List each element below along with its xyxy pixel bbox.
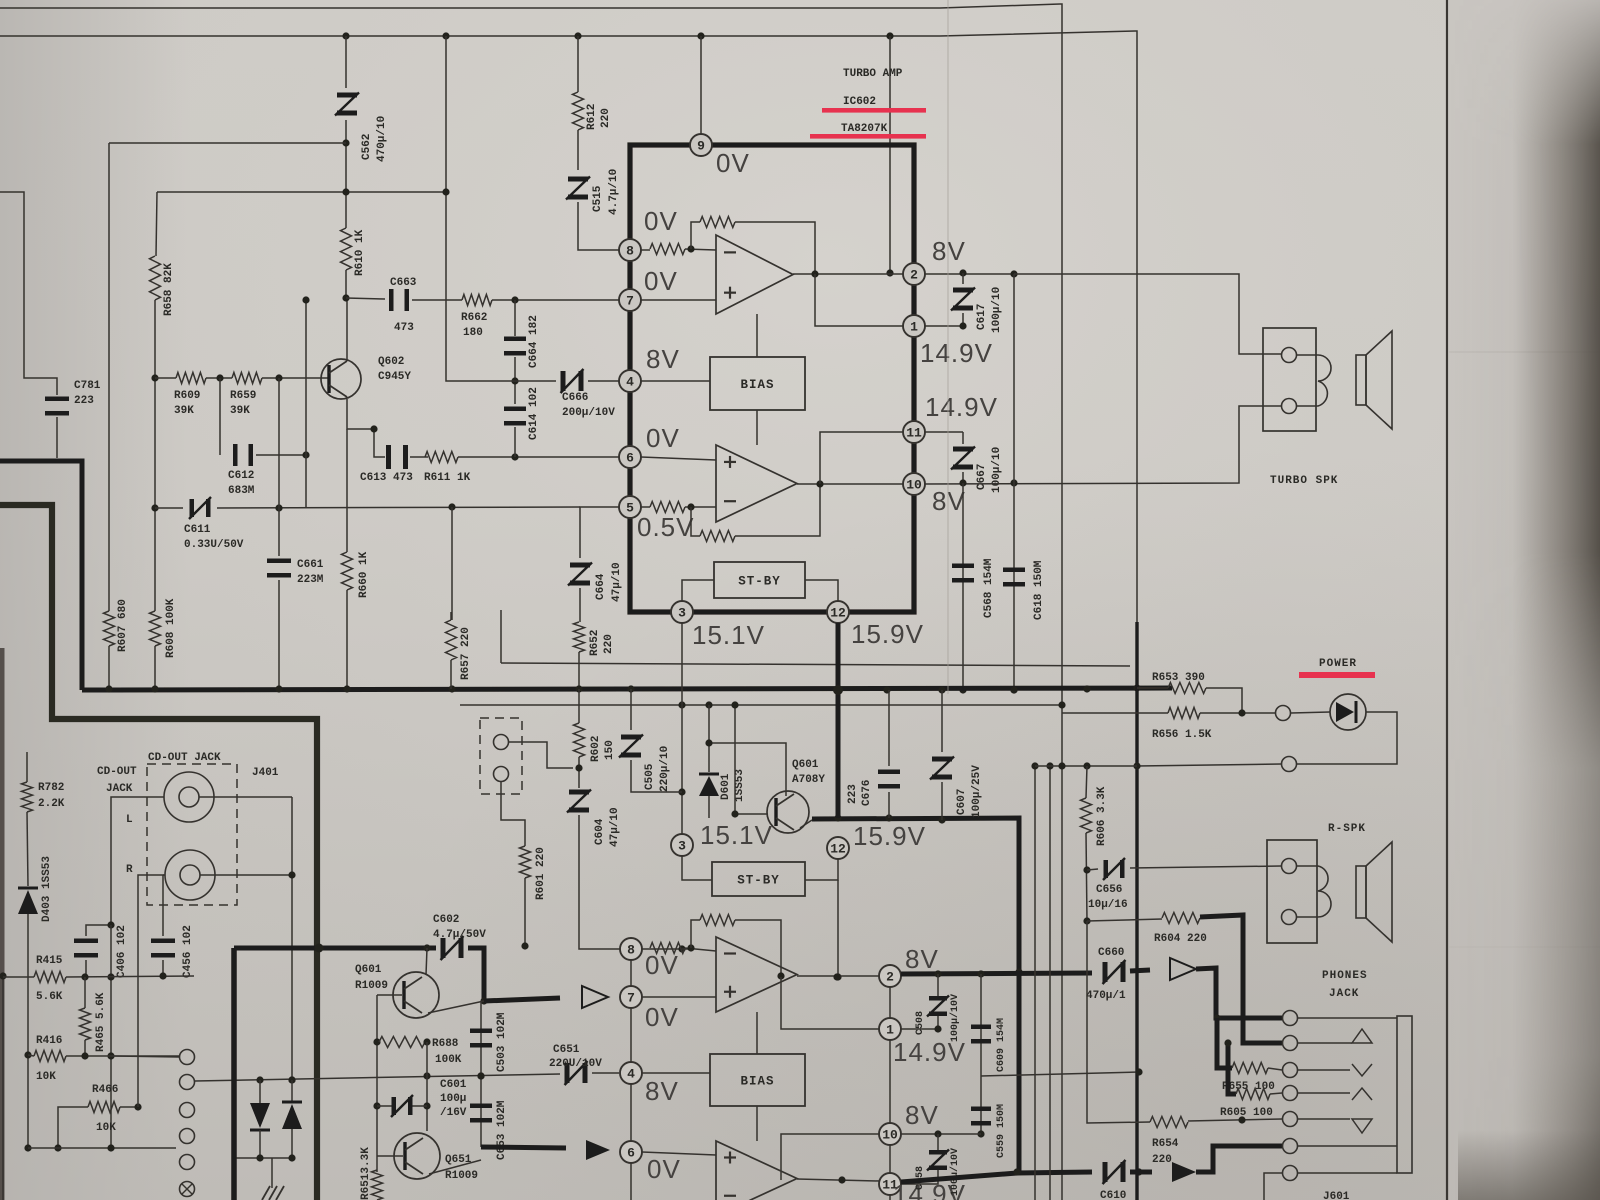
connector RCA L: [164, 772, 214, 822]
svg-text:C663: C663: [390, 277, 417, 289]
wire R466 right: [120, 1103, 142, 1110]
op-amp L-BIAS box: [710, 1054, 805, 1106]
wire x446 vertical: [442, 36, 515, 381]
page border line: [1446, 0, 1448, 1200]
svg-text:C505: C505: [644, 763, 656, 790]
wire C676 branch: [888, 690, 890, 766]
wire bias top: [756, 314, 758, 357]
wire feedback3 out: [735, 920, 781, 976]
svg-text:C676: C676: [861, 780, 873, 806]
wire stbyL left: [682, 856, 712, 880]
wire y378 base row: [155, 377, 176, 379]
ground: [262, 1158, 284, 1200]
svg-text:8V: 8V: [932, 236, 966, 266]
svg-text:R657 220: R657 220: [460, 627, 472, 680]
wire thick C660 to phones: [1130, 970, 1150, 971]
wire x155 drop: [156, 192, 157, 256]
label JACK: [1329, 988, 1359, 1000]
svg-text:Q602: Q602: [378, 356, 404, 368]
svg-text:C503 102M: C503 102M: [496, 1012, 508, 1072]
svg-text:C508: C508: [915, 1011, 926, 1035]
connector jack body bar: [1397, 1016, 1412, 1173]
svg-text:R658 82K: R658 82K: [163, 263, 175, 316]
resistor R466: [88, 1102, 120, 1113]
value 8V pin10 lower: [905, 1100, 939, 1130]
wire left drop x109: [108, 143, 110, 611]
connector J-option dashed box: [480, 718, 522, 794]
svg-text:0V: 0V: [645, 1002, 679, 1032]
label Q601 R1009: [355, 964, 388, 992]
label R609 39K: [174, 390, 200, 417]
label C612 683M: [228, 470, 255, 497]
wire pin7 to plus: [641, 299, 716, 301]
wire C663-R662: [412, 299, 462, 301]
resistor R606: [1081, 798, 1092, 833]
wire pin11 feedback tap: [820, 432, 903, 484]
label C406 102: [116, 925, 128, 978]
svg-text:JACK: JACK: [1329, 988, 1359, 1000]
svg-text:R654: R654: [1152, 1138, 1179, 1150]
resistor R653: [1168, 683, 1206, 694]
svg-text:R601 220: R601 220: [535, 847, 547, 900]
connector PHONES JACK: [1283, 1011, 1298, 1181]
svg-text:R1009: R1009: [355, 980, 388, 992]
svg-text:R466: R466: [92, 1084, 118, 1096]
resistor internal fb3a: [650, 943, 685, 954]
arrow phones L: [1170, 958, 1196, 980]
svg-text:D403 1SS53: D403 1SS53: [41, 856, 53, 922]
terminal opt1: [494, 735, 509, 750]
wire C508 to pin1L: [901, 1016, 942, 1033]
svg-text:TURBO SPK: TURBO SPK: [1270, 475, 1338, 487]
label R-SPK: [1328, 823, 1366, 835]
wire R662 to pin7: [492, 296, 619, 303]
wire pin1 feedback tap: [815, 274, 903, 326]
op-amp A3: [716, 937, 797, 1012]
terminal rspk1: [1282, 859, 1297, 874]
wire thick C610 to arrow: [1130, 1170, 1152, 1175]
resistor R604: [1162, 913, 1200, 924]
pin 10 lower: [879, 1123, 901, 1145]
svg-text:Q601: Q601: [792, 759, 819, 771]
svg-text:11: 11: [906, 426, 922, 441]
capacitor C663: [389, 289, 409, 311]
wire x377: [373, 995, 380, 1172]
capacitor C653: [470, 1104, 492, 1123]
svg-text:J601: J601: [1323, 1191, 1350, 1200]
wire R654 chain: [1087, 921, 1150, 1123]
label R415 5.6K: [36, 955, 63, 1003]
contact triangle up: [1298, 1029, 1372, 1043]
wire x111 down: [107, 925, 114, 1148]
resistor R662: [462, 295, 492, 306]
svg-text:C607: C607: [956, 789, 968, 815]
contact chevron up: [1298, 1088, 1372, 1100]
wire opt2 to R601: [501, 782, 525, 846]
svg-text:220: 220: [1152, 1154, 1172, 1166]
svg-text:C651: C651: [553, 1044, 580, 1056]
pin 5: [619, 496, 641, 518]
svg-text:39K: 39K: [230, 405, 250, 417]
svg-text:POWER: POWER: [1319, 658, 1357, 670]
svg-text:R-SPK: R-SPK: [1328, 823, 1366, 835]
wire pin4L to bias: [642, 1072, 710, 1074]
wire feedback2 out: [735, 484, 820, 536]
wire jack1 contact: [1298, 1017, 1397, 1019]
wire stbyL right: [805, 859, 838, 880]
wire C781 to bus: [56, 417, 58, 458]
label C613 473: [360, 472, 413, 484]
wire C515 to pin8: [578, 202, 619, 250]
resistor R416: [34, 1051, 66, 1062]
capacitor C660: [1103, 960, 1126, 984]
resistor internal fb1b: [700, 217, 735, 228]
wire node C562 branch: [345, 36, 347, 88]
svg-text:C945Y: C945Y: [378, 371, 411, 383]
wire Q601b collector: [426, 948, 427, 975]
label C610: [1100, 1190, 1126, 1200]
wire thick bus C602 rail: [234, 942, 529, 952]
resistor R609: [176, 373, 206, 384]
svg-text:0V: 0V: [644, 206, 678, 236]
svg-text:ST-BY: ST-BY: [738, 575, 781, 589]
value 15.9V pin12: [851, 619, 924, 649]
svg-text:Q601: Q601: [355, 964, 382, 976]
wire biasL top: [756, 1012, 758, 1054]
diode D-right: [282, 1102, 302, 1129]
diode D403: [18, 888, 38, 914]
wire pin11 out: [925, 431, 963, 433]
label C676 223: [847, 780, 873, 806]
svg-text:5.6K: 5.6K: [36, 991, 63, 1003]
wire row y1148: [28, 1144, 176, 1151]
resistor R602: [574, 723, 585, 757]
wire thick pin6 feed: [481, 1147, 566, 1148]
svg-text:R653 390: R653 390: [1152, 672, 1205, 684]
wire C456 link: [162, 875, 164, 936]
value 14.9V pin1 lower: [893, 1037, 966, 1067]
wire C656 to RSPK: [1130, 866, 1281, 868]
svg-text:C666: C666: [562, 392, 588, 404]
wire C568 branch: [959, 483, 966, 694]
wire R601 down: [524, 878, 526, 944]
wire pin10L out: [901, 1130, 981, 1137]
svg-text:C602: C602: [433, 914, 459, 926]
capacitor C667: [951, 447, 975, 470]
resistor R654: [1150, 1117, 1188, 1128]
connector R-SPK terminals: [1267, 840, 1317, 943]
label IC602: [843, 96, 876, 108]
wire R652 to bus: [578, 652, 580, 689]
wire pin6 to plus2: [641, 457, 716, 460]
label R606 3.3K: [1096, 786, 1108, 846]
wire R465 top: [84, 977, 86, 1008]
wire inner ground L: [0, 505, 317, 1200]
wire R415 lead: [3, 976, 34, 978]
capacitor C609: [971, 1025, 991, 1044]
wire led return: [1297, 712, 1397, 764]
svg-text:R652: R652: [589, 630, 601, 656]
svg-text:10: 10: [882, 1128, 898, 1143]
label C660 470u/1: [1086, 947, 1126, 1002]
svg-text:R662: R662: [461, 312, 487, 324]
diode D601: [699, 774, 719, 796]
label C651 220U/10V: [549, 1044, 602, 1070]
label C663 473: [390, 277, 417, 334]
label R416 10K: [36, 1035, 62, 1083]
pin 2 lower: [879, 965, 901, 987]
svg-text:6: 6: [626, 451, 634, 466]
svg-text:47µ/10: 47µ/10: [609, 807, 621, 847]
resistor R658: [150, 256, 161, 300]
capacitor C664: [504, 337, 526, 356]
terminal rspk2: [1282, 910, 1297, 925]
svg-text:TURBO AMP: TURBO AMP: [843, 68, 903, 80]
label C611 0.33U/50V: [184, 524, 244, 551]
diode D-left: [250, 1103, 270, 1130]
svg-text:0.33U/50V: 0.33U/50V: [184, 539, 244, 551]
resistor R660: [342, 552, 353, 590]
svg-text:100µ/10V: 100µ/10V: [949, 994, 961, 1042]
resistor R659: [232, 373, 262, 384]
label C602 4.7u/50V: [433, 914, 486, 941]
svg-text:R607 680: R607 680: [117, 599, 129, 652]
wire pin9 feed: [700, 36, 702, 134]
wire Q651 emitter: [429, 1160, 481, 1174]
wire pin4 to bias: [641, 380, 710, 382]
svg-text:C559 150M: C559 150M: [996, 1104, 1007, 1158]
wire C666 to pin4: [588, 380, 619, 382]
right shadow: [1449, 0, 1600, 1200]
wire row y663 stub: [500, 610, 502, 663]
pin 4 lower: [620, 1062, 642, 1084]
label C607 100u/25V: [956, 765, 983, 818]
svg-text:2: 2: [886, 970, 894, 985]
label POWER: [1319, 658, 1357, 670]
wire opt1 to node: [509, 742, 573, 768]
svg-text:12: 12: [830, 606, 846, 621]
svg-text:C781: C781: [74, 380, 101, 392]
wire C664-C614: [511, 357, 518, 404]
wire feedback3: [691, 920, 700, 948]
wire thick pin2 out: [901, 970, 1092, 977]
wire second rail: [0, 31, 1137, 1200]
svg-text:47µ/10: 47µ/10: [611, 562, 623, 602]
svg-text:C613 473: C613 473: [360, 472, 413, 484]
resistor R688: [379, 1037, 425, 1048]
value 14.9V pin1: [920, 338, 993, 368]
wire pin2 out: [925, 269, 1018, 277]
capacitor C610: [1103, 1160, 1126, 1184]
label PHONES: [1322, 970, 1368, 982]
connector TURBO SPK terminals: [1263, 328, 1316, 431]
wire R659 to base: [262, 374, 330, 381]
wire C611 right: [217, 503, 580, 511]
svg-text:220: 220: [603, 634, 615, 654]
label C503 102M: [496, 1012, 508, 1072]
resistor R601: [520, 846, 531, 878]
wire x306 drop: [302, 296, 309, 507]
wire L-IC right pin column: [889, 965, 891, 1200]
capacitor C656: [1103, 858, 1125, 880]
svg-text:100µ/25V: 100µ/25V: [971, 765, 983, 818]
label R: [126, 864, 133, 876]
wire to C666: [515, 380, 556, 382]
op-amp U-STBY1 box: [714, 562, 805, 598]
connector switch contacts: [180, 1050, 195, 1197]
svg-text:223: 223: [847, 784, 859, 804]
capacitor C601: [377, 1095, 427, 1117]
wire rail 15.9V: [812, 814, 1023, 1172]
svg-text:R608 100K: R608 100K: [165, 598, 177, 658]
svg-text:R605 100: R605 100: [1220, 1107, 1273, 1119]
wire x220 drop: [219, 378, 221, 455]
wire R606 down: [1083, 833, 1090, 925]
resistor R656: [1168, 708, 1200, 719]
value 0V pin7: [644, 266, 678, 296]
svg-text:R611 1K: R611 1K: [424, 472, 471, 484]
label R601 220: [535, 847, 547, 900]
label D403 1SS53: [41, 856, 53, 922]
red underline POWER: [1299, 672, 1375, 678]
value 0V pin9: [716, 148, 750, 178]
capacitor C568: [952, 564, 974, 583]
wire R611 to pin6: [458, 453, 619, 460]
arrow signal R: [586, 1140, 610, 1160]
wire Q601 collector loop: [705, 739, 786, 796]
svg-text:ST-BY: ST-BY: [737, 874, 780, 888]
svg-text:0V: 0V: [644, 266, 678, 296]
label C515 4.7u/10: [592, 169, 620, 215]
wire stby left: [682, 580, 714, 601]
capacitor C666: [561, 369, 584, 393]
label C614 102: [528, 387, 540, 440]
wire dpair right top: [291, 1080, 293, 1102]
svg-text:C612: C612: [228, 470, 254, 482]
capacitor C676: [878, 770, 900, 789]
label C666 200u/10V: [562, 392, 615, 419]
label R655 100: [1222, 1081, 1275, 1093]
wire pin8L right: [642, 945, 686, 952]
svg-text:C660: C660: [1098, 947, 1124, 959]
wire Q651 base: [377, 1155, 403, 1157]
svg-text:8V: 8V: [905, 1100, 939, 1130]
resistor R612: [573, 92, 584, 130]
svg-text:C617: C617: [976, 304, 988, 330]
wire c1 stub: [111, 1056, 179, 1057]
wire R609-R659: [206, 374, 232, 381]
value 8V pin10: [932, 486, 966, 516]
wire input row y1080: [195, 1072, 560, 1083]
wire C562 to R610: [342, 120, 349, 228]
wire pin1L tap: [781, 977, 879, 1029]
svg-text:1: 1: [886, 1023, 894, 1038]
wire pin8L to minus: [682, 948, 691, 950]
wire R602 top: [578, 689, 580, 723]
wire Q601b base: [377, 994, 402, 996]
svg-text:2.2K: 2.2K: [38, 798, 65, 810]
wire outer ground L: [0, 461, 82, 690]
label R654 220: [1152, 1138, 1179, 1166]
label J601: [1323, 1191, 1350, 1200]
capacitor C456: [151, 939, 175, 958]
wire x578 top: [577, 36, 579, 92]
svg-text:100µ/10V: 100µ/10V: [949, 1148, 961, 1196]
diode POWER LED: [1330, 694, 1366, 730]
label R688 100K: [432, 1038, 462, 1066]
svg-text:C664: C664: [595, 573, 607, 600]
wire y508 row: [155, 507, 183, 509]
op-amp A1: [716, 235, 793, 314]
svg-text:R688: R688: [432, 1038, 459, 1050]
pin 8 lower: [620, 938, 642, 960]
contact triangle down: [1298, 1119, 1372, 1133]
resistor R652: [574, 622, 585, 652]
svg-text:R1009: R1009: [445, 1170, 478, 1182]
label C456 102: [182, 925, 194, 978]
wire fb2 node: [685, 503, 716, 510]
wire thick R605 feed: [1224, 1039, 1236, 1094]
wire Q601b emitter: [428, 1001, 484, 1013]
pin 6: [619, 446, 641, 468]
svg-text:470µ/1: 470µ/1: [1086, 990, 1126, 1002]
resistor internal fb2b: [700, 531, 735, 542]
svg-text:TA8207K: TA8207K: [841, 123, 888, 135]
svg-text:3: 3: [678, 606, 686, 621]
wire thick to phones jack 6: [1196, 1146, 1282, 1172]
wire C676 down: [888, 792, 890, 818]
wire opamp3 out: [777, 972, 879, 980]
resistor R607: [104, 611, 115, 646]
wire C406 link: [86, 921, 115, 936]
wire C667 branch: [962, 432, 964, 444]
label JACK: [106, 783, 133, 795]
label C508 100u/10V: [915, 994, 961, 1042]
wire C508 branch: [937, 974, 939, 997]
svg-text:C604: C604: [594, 818, 606, 845]
svg-text:100µ/10: 100µ/10: [991, 447, 1003, 493]
label C601 100u/16V: [440, 1079, 467, 1119]
label CD-OUT JACK: [148, 752, 221, 764]
pin 11 lower: [879, 1173, 901, 1195]
value 0V pin6: [646, 423, 680, 453]
wire R658 down: [151, 300, 158, 611]
wire pin7L to plus: [642, 996, 716, 998]
wire left y143: [109, 142, 346, 144]
label R465 5.6K: [95, 992, 107, 1052]
red underline TA8207K: [810, 134, 926, 139]
label R466 10K: [92, 1084, 118, 1134]
wire emitter to R660: [346, 429, 348, 552]
capacitor C562: [335, 93, 359, 116]
svg-text:C562: C562: [361, 134, 373, 160]
fold seam: [947, 0, 949, 694]
wire x1137 heavy: [1135, 622, 1138, 1200]
wire R606 top: [1086, 766, 1087, 798]
pin 4: [619, 370, 641, 392]
label C604 47u/10: [594, 807, 621, 847]
wire D601 bottom: [708, 796, 710, 818]
label C617 100u/10: [976, 287, 1003, 333]
label R605 100: [1220, 1107, 1273, 1119]
wire pin10 out: [925, 406, 1281, 487]
capacitor C604: [567, 790, 591, 813]
wire C617 branch: [962, 273, 964, 284]
wire R602 to C604: [575, 757, 582, 788]
pin 10: [903, 473, 925, 495]
wire pin5 to minus2: [641, 506, 650, 508]
wire pin12L drop: [834, 880, 841, 981]
